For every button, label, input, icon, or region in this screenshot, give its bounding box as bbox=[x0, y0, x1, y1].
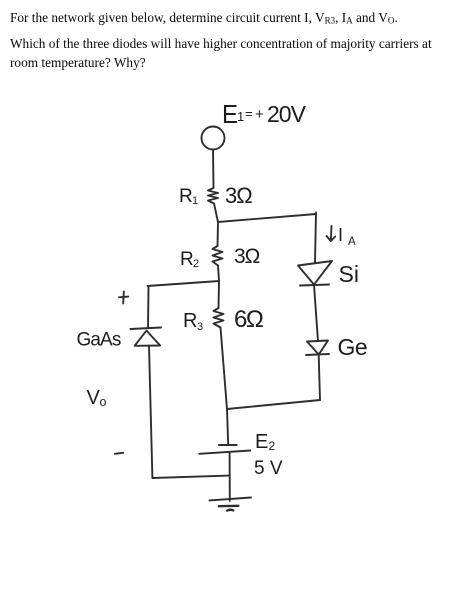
label minus bbox=[115, 453, 123, 454]
wire node A to right branch top bbox=[218, 214, 316, 222]
svg-text:3Ω: 3Ω bbox=[225, 183, 252, 208]
svg-text:R: R bbox=[179, 186, 193, 207]
ground line 3 bbox=[227, 509, 233, 512]
svg-text:E: E bbox=[255, 431, 268, 453]
svg-text:+: + bbox=[255, 106, 264, 123]
label 5V bbox=[254, 458, 283, 479]
label Si bbox=[339, 261, 359, 287]
diode Si bbox=[298, 261, 332, 285]
diode GaAs bar bbox=[130, 328, 161, 330]
label R3 bbox=[183, 310, 203, 333]
svg-text:1: 1 bbox=[192, 195, 198, 207]
svg-text:20V: 20V bbox=[267, 101, 307, 127]
label IA arrow bbox=[327, 226, 336, 241]
label 3ohm R2 bbox=[234, 245, 260, 268]
wire GaAs to bottom left corner bbox=[149, 346, 152, 478]
svg-text:Ge: Ge bbox=[338, 334, 368, 360]
wire node B to R3 bbox=[218, 281, 221, 308]
ground line 2 bbox=[219, 505, 239, 508]
resistor R1 zigzag bbox=[208, 188, 218, 204]
svg-text:5 V: 5 V bbox=[254, 458, 283, 479]
label E2 bbox=[255, 431, 276, 453]
svg-text:GaAs: GaAs bbox=[77, 330, 121, 351]
left branch wire to GaAs diode bbox=[147, 286, 150, 328]
diode Ge bbox=[307, 341, 328, 355]
svg-text:R: R bbox=[180, 249, 194, 270]
bottom left horizontal wire bbox=[152, 476, 229, 478]
label R1 bbox=[179, 186, 198, 207]
label GaAs bbox=[77, 330, 121, 351]
svg-text:A: A bbox=[348, 236, 356, 248]
wire node A to R2 bbox=[217, 222, 220, 246]
label plus bbox=[119, 292, 128, 304]
svg-text:=: = bbox=[245, 106, 253, 121]
label 3ohm R1 bbox=[225, 183, 252, 208]
right branch wire to Si bbox=[315, 213, 316, 263]
svg-text:I: I bbox=[338, 225, 343, 245]
wire Si to Ge bbox=[314, 285, 318, 341]
label R2 bbox=[180, 249, 199, 270]
label 6ohm R3 bbox=[234, 306, 263, 333]
svg-text:V: V bbox=[87, 387, 101, 409]
battery E2 long plate bbox=[199, 451, 250, 454]
wire R2 to node B bbox=[218, 266, 219, 282]
resistor R3 zigzag bbox=[214, 308, 224, 328]
label Ge bbox=[338, 334, 368, 360]
wire R1 to node A bbox=[214, 204, 218, 223]
resistor R2 zigzag bbox=[213, 246, 223, 266]
svg-text:R: R bbox=[183, 310, 197, 332]
bottom right horizontal wire bbox=[227, 400, 320, 409]
svg-text:2: 2 bbox=[269, 439, 276, 453]
wire R3 to battery bbox=[221, 328, 229, 445]
label Vo bbox=[87, 387, 107, 409]
label E1 = +20V bbox=[222, 100, 307, 129]
battery E2 short plate bbox=[219, 444, 237, 446]
wire node B to left branch bbox=[148, 281, 220, 286]
wire from terminal to R1 bbox=[212, 150, 215, 189]
ground line 1 bbox=[209, 498, 251, 501]
svg-text:o: o bbox=[100, 395, 107, 409]
svg-text:2: 2 bbox=[193, 258, 199, 270]
svg-text:1: 1 bbox=[237, 109, 244, 124]
svg-text:3: 3 bbox=[197, 321, 203, 333]
svg-text:Si: Si bbox=[339, 261, 359, 287]
wire Ge to bottom right corner bbox=[319, 355, 320, 400]
svg-text:E: E bbox=[222, 100, 238, 129]
svg-text:6Ω: 6Ω bbox=[234, 306, 263, 333]
diode GaAs triangle bbox=[135, 331, 161, 346]
supply terminal E1 circle bbox=[202, 127, 225, 150]
wire battery to ground bbox=[229, 453, 231, 501]
svg-text:3Ω: 3Ω bbox=[234, 245, 260, 268]
